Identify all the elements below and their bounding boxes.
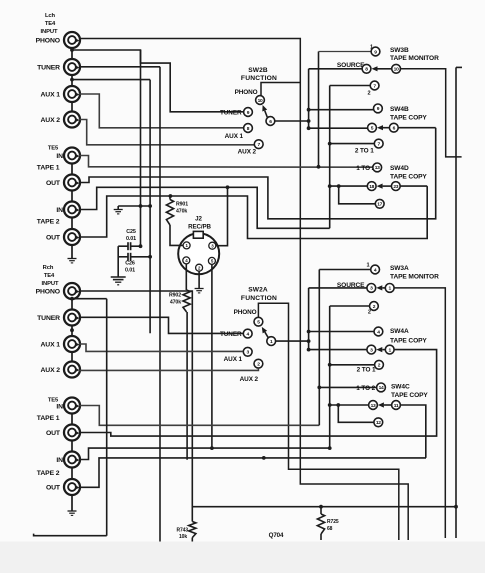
svg-text:SW3B: SW3B [390,47,409,54]
svg-text:SW4C: SW4C [391,384,410,391]
svg-text:TAPE COPY: TAPE COPY [390,338,427,345]
svg-text:TAPE 2: TAPE 2 [37,470,60,477]
svg-text:12: 12 [376,420,381,426]
svg-text:10: 10 [394,67,399,73]
svg-text:R901: R901 [176,202,188,208]
svg-text:FUNCTION: FUNCTION [241,295,277,302]
svg-text:SOURCE: SOURCE [337,62,365,69]
svg-text:2 TO 1: 2 TO 1 [355,148,374,155]
svg-text:PHONO: PHONO [235,89,258,96]
svg-text:AUX 1: AUX 1 [224,356,243,363]
svg-text:AUX 1: AUX 1 [40,92,60,99]
svg-text:2: 2 [367,91,370,97]
svg-text:AUX 2: AUX 2 [40,367,60,374]
svg-text:17: 17 [377,202,382,208]
svg-text:IN: IN [56,153,63,160]
svg-text:R902: R902 [169,293,181,299]
svg-text:23: 23 [393,184,398,190]
svg-text:PHONO: PHONO [36,289,60,296]
svg-text:SW2A: SW2A [248,287,268,294]
svg-text:INPUT: INPUT [42,281,59,287]
svg-text:Q704: Q704 [269,532,284,539]
svg-text:0.01: 0.01 [125,268,135,274]
svg-text:PHONO: PHONO [36,38,60,45]
svg-text:SW4D: SW4D [390,165,409,172]
svg-text:1 TO 2: 1 TO 2 [356,385,375,392]
svg-text:10k: 10k [179,534,187,540]
svg-text:470k: 470k [170,300,181,306]
svg-text:PHONO: PHONO [234,309,257,316]
svg-text:AUX 1: AUX 1 [225,133,244,140]
svg-text:1: 1 [366,263,369,269]
svg-text:AUX 1: AUX 1 [40,342,60,349]
svg-text:TAPE COPY: TAPE COPY [390,115,427,122]
svg-text:14: 14 [379,385,384,391]
svg-text:AUX 2: AUX 2 [240,376,259,383]
svg-text:FUNCTION: FUNCTION [241,75,277,82]
svg-text:IN: IN [56,457,63,464]
svg-text:13: 13 [371,403,376,409]
svg-text:TAPE COPY: TAPE COPY [390,174,427,181]
svg-text:Rch: Rch [43,265,54,271]
svg-text:470k: 470k [176,209,187,215]
svg-text:OUT: OUT [46,430,61,437]
svg-text:TUNER: TUNER [220,331,242,338]
svg-text:SW3A: SW3A [390,265,409,272]
svg-text:10: 10 [258,98,263,104]
svg-text:68: 68 [327,526,333,532]
svg-text:OUT: OUT [46,180,61,187]
svg-text:2: 2 [368,310,371,316]
svg-text:TAPE COPY: TAPE COPY [391,392,428,399]
svg-text:J2: J2 [195,216,202,223]
svg-text:TE5: TE5 [48,146,59,152]
svg-text:TE4: TE4 [44,273,55,279]
svg-text:0.01: 0.01 [126,236,136,242]
svg-text:13: 13 [375,165,380,171]
svg-text:IN: IN [56,404,63,411]
svg-text:OUT: OUT [46,485,61,492]
svg-text:R743: R743 [176,528,188,534]
svg-text:AUX 2: AUX 2 [40,117,60,124]
svg-text:TUNER: TUNER [220,110,242,117]
svg-text:TAPE 2: TAPE 2 [37,219,60,226]
svg-text:TAPE MONITOR: TAPE MONITOR [390,55,439,62]
svg-text:INPUT: INPUT [41,29,58,35]
svg-text:R725: R725 [327,519,339,525]
svg-text:TAPE 1: TAPE 1 [37,415,60,422]
svg-text:SW2B: SW2B [248,67,268,74]
svg-text:SOURCE: SOURCE [337,282,365,289]
svg-text:18: 18 [369,184,374,190]
svg-text:OUT: OUT [46,235,61,242]
svg-text:TAPE 1: TAPE 1 [37,165,60,172]
svg-text:Lch: Lch [45,13,56,19]
svg-text:IN: IN [56,207,63,214]
svg-text:TE4: TE4 [45,21,56,27]
svg-text:TAPE MONITOR: TAPE MONITOR [390,274,439,281]
svg-text:TUNER: TUNER [37,65,60,72]
svg-text:SW4A: SW4A [390,328,409,335]
svg-text:SW4B: SW4B [390,106,409,113]
svg-text:2 TO 1: 2 TO 1 [357,366,376,373]
svg-text:11: 11 [394,403,399,409]
svg-text:TUNER: TUNER [37,315,60,322]
svg-text:C25: C25 [126,229,136,235]
svg-text:REC/PB: REC/PB [188,224,211,231]
svg-text:C26: C26 [125,261,135,267]
svg-text:AUX 2: AUX 2 [238,149,257,156]
